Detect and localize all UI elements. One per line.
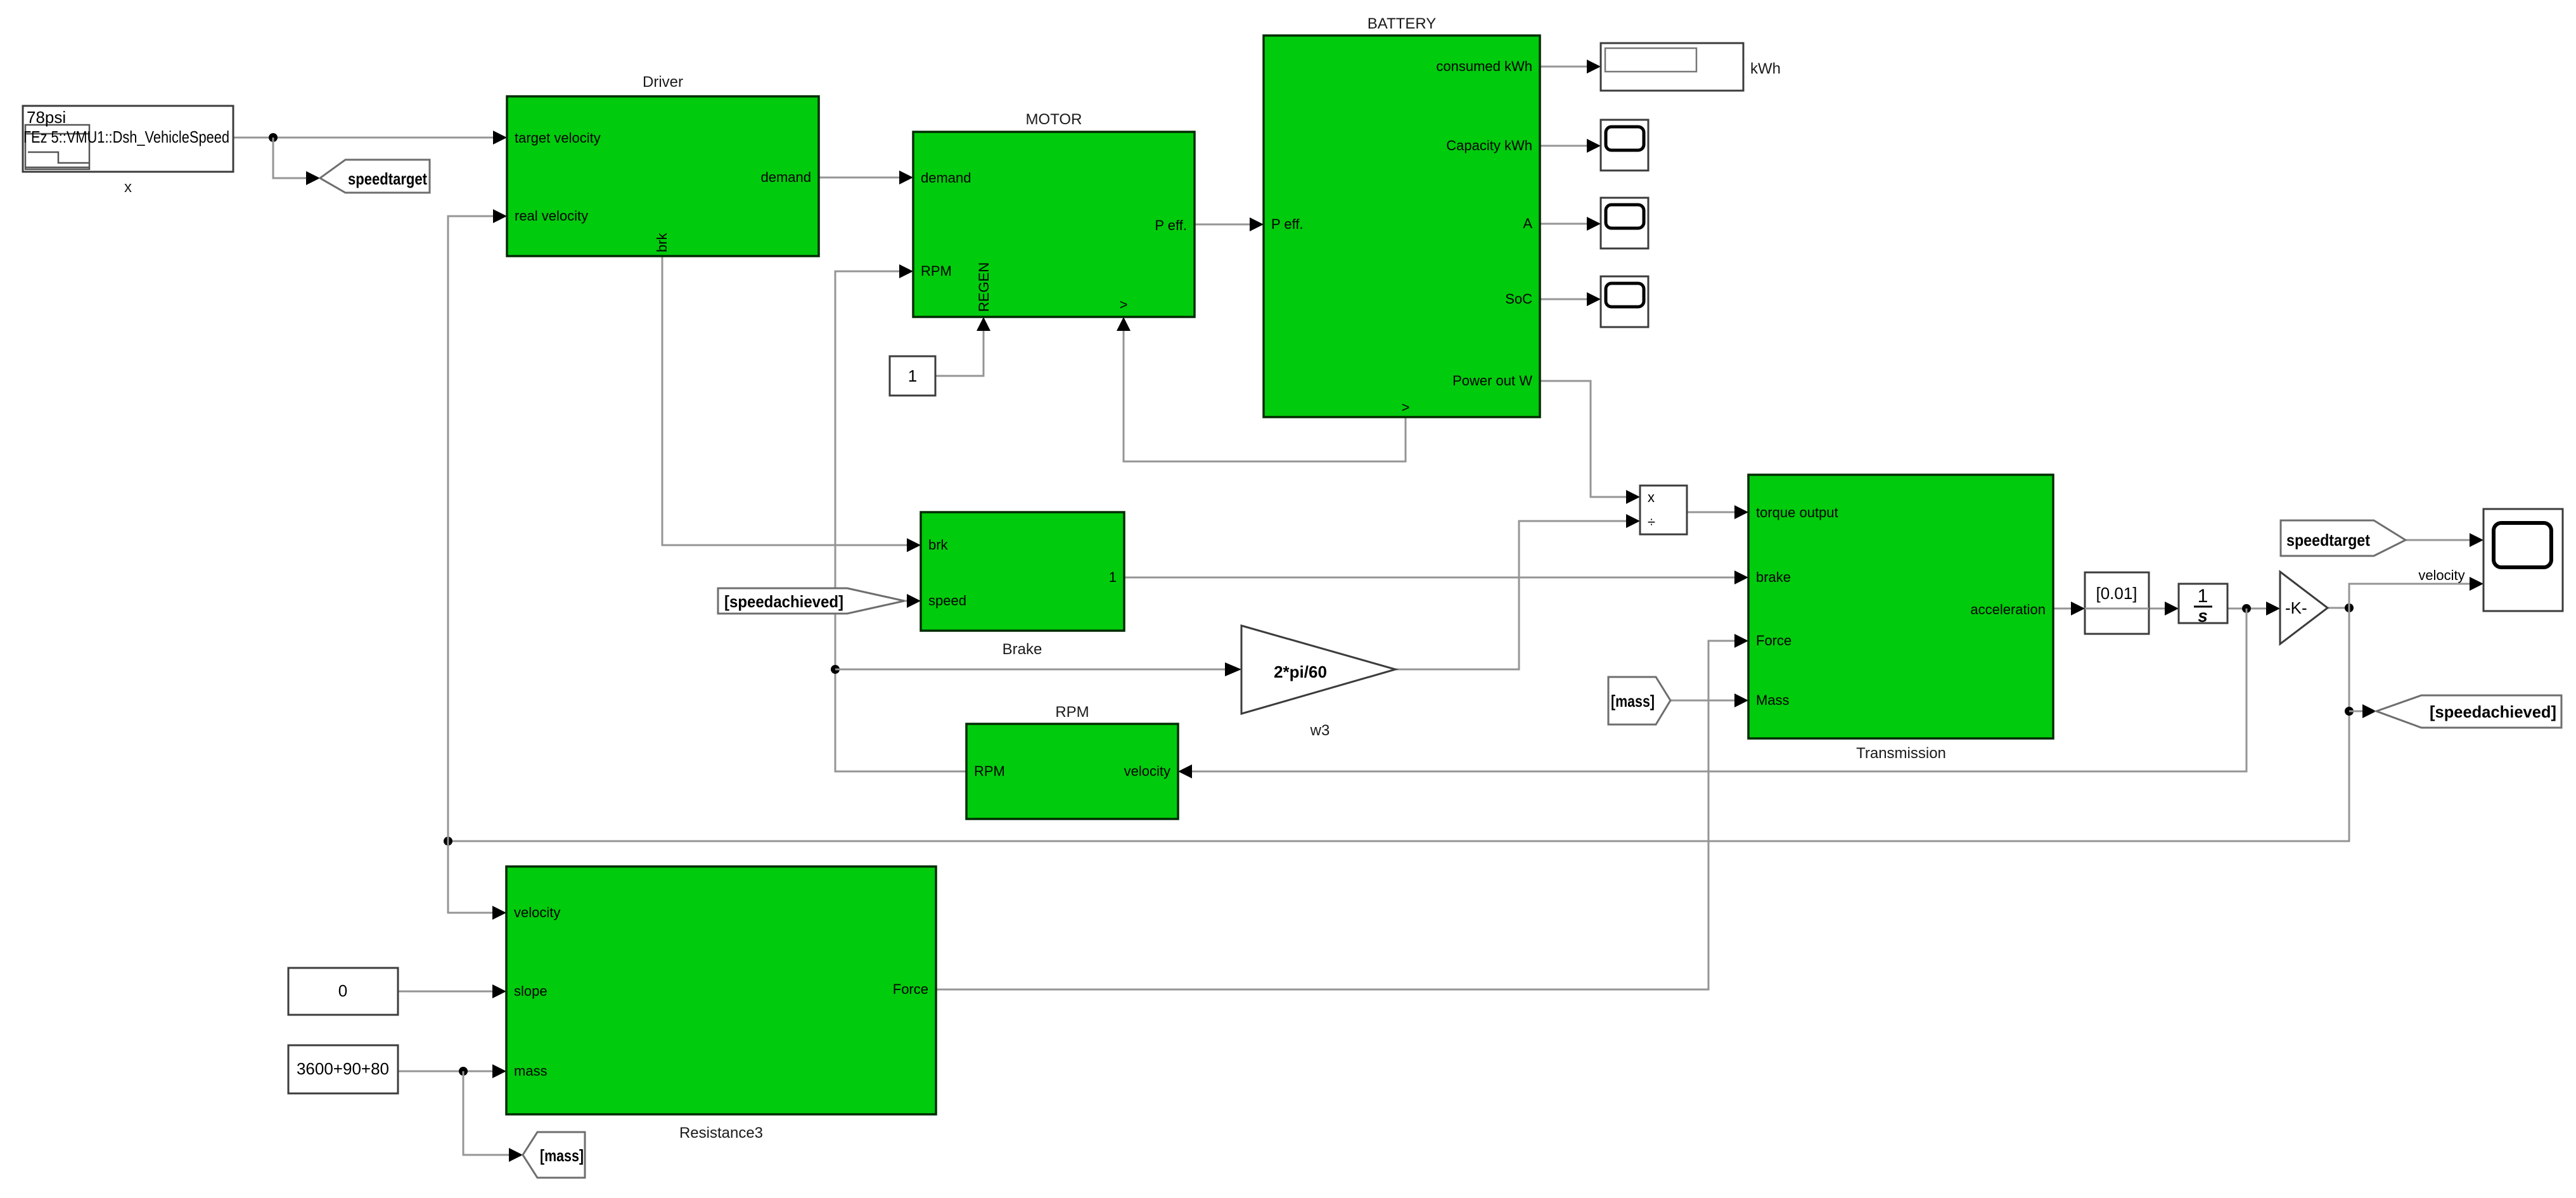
svg-text:Capacity kWh: Capacity kWh [1446,138,1532,153]
svg-text:Force: Force [893,981,928,997]
constant 3600+90+80 [288,1045,398,1093]
wire J6 down to Resistance3 velocity [448,841,506,920]
display kWh [1601,43,1743,91]
node J4 [2345,603,2354,612]
svg-text:1: 1 [1109,569,1117,585]
subsystem Resistance3 [506,866,936,1114]
node J7 mass branch [459,1067,468,1076]
svg-text:-K-: -K- [2285,598,2307,617]
wire src to Driver target velocity [233,131,507,145]
svg-text:P eff.: P eff. [1271,216,1304,232]
svg-text:real velocity: real velocity [515,208,588,224]
svg-text:Driver: Driver [643,74,683,91]
subsystem MOTOR [913,132,1195,317]
svg-text:x: x [1648,489,1655,505]
svg-text:x: x [124,179,132,196]
svg-text:velocity: velocity [1124,763,1170,779]
wire J4 up to scope velocity input [2349,577,2483,608]
svg-text:÷: ÷ [1648,514,1655,530]
node J5 speedachieved branch [2345,707,2354,716]
svg-text:torque output: torque output [1756,505,1838,520]
node J2 on RPM feedback [831,665,840,674]
svg-text:Force: Force [1756,633,1791,648]
svg-text:Power out W: Power out W [1452,373,1532,389]
constant 1 [890,356,935,396]
wire J3 down to RPM block velocity input [1178,609,2246,778]
wire constant 3600+90+80 to Resistance3 mass [398,1064,506,1078]
svg-text:Brake: Brake [1003,641,1042,658]
goto mass [523,1132,585,1178]
wire J5 to goto speedachieved [2349,704,2376,718]
node J6 velocity feedback left [444,837,452,846]
wire -K- out to node J4 [2328,607,2349,609]
svg-text:Mass: Mass [1756,692,1790,708]
scope Capacity kWh [1601,120,1648,171]
goto speedachieved [2376,695,2561,728]
from mass (near Transmission) [1608,677,1670,725]
svg-text:[mass]: [mass] [1611,692,1655,711]
svg-text:[speedachieved]: [speedachieved] [724,592,843,611]
svg-text:ΓEz 5::VMU1::Dsh_VehicleSpeed: ΓEz 5::VMU1::Dsh_VehicleSpeed [23,127,229,146]
svg-text:MOTOR: MOTOR [1026,111,1082,128]
goto speedtarget [320,160,430,193]
svg-text:[speedachieved]: [speedachieved] [2430,702,2556,721]
svg-text:[mass]: [mass] [540,1146,584,1165]
wire J4 down long feedback [448,608,2349,841]
wire Driver brk to Brake brk [662,256,921,552]
wire BATTERY > loop back to MOTOR > [1117,317,1406,461]
svg-text:consumed kWh: consumed kWh [1436,58,1532,74]
svg-text:s: s [2198,606,2208,626]
svg-text:1: 1 [908,366,917,385]
svg-text:P eff.: P eff. [1155,217,1187,233]
svg-text:acceleration: acceleration [1970,602,2046,617]
subsystem Transmission [1748,475,2053,738]
svg-text:[0.01]: [0.01] [2096,584,2137,603]
wire constant 1 to MOTOR REGEN [935,317,990,376]
svg-text:mass: mass [514,1063,548,1079]
product block [1640,486,1687,534]
block 0.01 [2085,572,2149,634]
wire BATTERY Power out W to product x [1540,381,1640,504]
svg-text:kWh: kWh [1750,60,1781,77]
wire Resistance3 Force to Transmission Force [936,634,1748,989]
wire 0.01 to integrator [2149,602,2179,615]
wire MOTOR P eff. to BATTERY P eff. [1195,217,1264,231]
svg-text:RPM: RPM [1055,704,1089,721]
svg-text:BATTERY: BATTERY [1368,15,1436,32]
wire Brake 1 out to Transmission brake [1124,570,1748,584]
svg-text:brake: brake [1756,569,1791,585]
svg-text:0: 0 [338,981,347,1000]
wire from mass tag to Transmission Mass [1670,693,1748,707]
svg-text:w3: w3 [1310,722,1330,739]
gain -K- [2280,572,2328,644]
node J1 [269,133,278,142]
subsystem Brake [921,512,1124,631]
svg-text:velocity: velocity [514,905,560,920]
wire J7 to goto mass [463,1071,523,1162]
svg-text:slope: slope [514,983,548,999]
svg-text:speed: speed [928,593,966,609]
wire J1 to goto speedtarget [273,138,320,185]
scope speeds [2483,509,2563,611]
subsystem BATTERY [1264,35,1540,417]
svg-text:78psi: 78psi [27,108,66,127]
from speedtarget (right) [2281,520,2406,556]
svg-text:velocity: velocity [2418,567,2464,583]
svg-text:2*pi/60: 2*pi/60 [1274,662,1327,681]
scope SoC [1601,276,1648,327]
svg-text:>: > [1120,297,1128,312]
from speedachieved [718,588,904,614]
wire J2 to gain w3 [835,662,1241,676]
subsystem RPM [966,724,1178,819]
constant 0 [288,968,398,1015]
wire BATTERY consumed kWh to display [1540,60,1601,74]
wire constant 0 to Resistance3 slope [398,984,506,998]
svg-text:target velocity: target velocity [515,130,601,146]
svg-text:SoC: SoC [1505,291,1532,307]
svg-text:3600+90+80: 3600+90+80 [297,1059,389,1078]
wire gain w3 out to product divide [1395,514,1640,669]
svg-text:demand: demand [921,170,971,186]
svg-text:RPM: RPM [921,263,952,279]
wire Driver demand to MOTOR demand [819,171,913,184]
wire integrator to gain -K- [2227,602,2280,615]
wire from speedachieved tag to Brake speed [904,594,921,608]
wire RPM block out to MOTOR RPM [835,264,966,771]
subsystem Driver [507,96,819,256]
wire BATTERY A to scope [1540,217,1601,231]
svg-text:brk: brk [654,232,670,252]
integrator 1/s [2179,584,2227,626]
wire BATTERY Capacity kWh to scope [1540,139,1601,153]
wire J6 up to Driver real velocity [448,209,507,841]
svg-text:>: > [1402,399,1410,415]
svg-text:brk: brk [928,537,949,553]
gain w3 [1241,626,1395,714]
node J3 integrator output [2242,604,2251,613]
svg-text:Transmission: Transmission [1856,745,1946,762]
svg-text:Resistance3: Resistance3 [679,1124,763,1142]
source block x (signal 78psi) [23,106,233,172]
svg-text:1: 1 [2198,586,2208,607]
wire from speedtarget tag to scope [2406,533,2483,547]
svg-text:demand: demand [760,169,811,185]
wire product out to Transmission torque output [1687,505,1748,519]
svg-text:speedtarget: speedtarget [2286,531,2370,550]
wire BATTERY SoC to scope [1540,292,1601,306]
scope A [1601,198,1648,248]
svg-text:A: A [1523,216,1532,231]
svg-text:REGEN: REGEN [976,262,992,312]
svg-text:speedtarget: speedtarget [348,169,427,188]
wire Transmission acceleration to block 0.01 [2053,602,2085,615]
svg-text:RPM: RPM [974,763,1005,779]
